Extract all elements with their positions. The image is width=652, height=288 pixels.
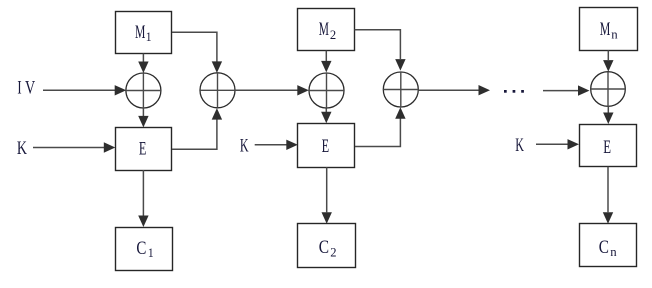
wire E1 up to X2 xyxy=(172,108,222,149)
svg-text:K: K xyxy=(240,136,249,157)
label K2 xyxy=(240,136,249,157)
block E2 xyxy=(298,124,355,168)
wire E2 up to X4 xyxy=(355,107,406,146)
label K3 xyxy=(515,135,524,156)
wire X5 to En xyxy=(603,106,613,124)
wire En to Cn xyxy=(603,167,613,224)
svg-text:M: M xyxy=(600,19,611,40)
svg-text:M: M xyxy=(135,22,145,43)
wire dots to X5 xyxy=(543,85,590,95)
block Mn xyxy=(580,8,638,51)
block M1 xyxy=(116,12,172,54)
block En xyxy=(580,125,637,167)
svg-text:K: K xyxy=(515,135,524,156)
svg-text:2: 2 xyxy=(330,244,336,259)
svg-text:C: C xyxy=(599,237,609,258)
wire M1 right feed to X2 xyxy=(172,32,222,73)
svg-text:C: C xyxy=(319,237,329,258)
wire X4 out right xyxy=(418,85,490,95)
wire X3 to E2 xyxy=(321,108,331,123)
wire M2 to X3 xyxy=(321,51,331,73)
label IV xyxy=(17,78,35,99)
wire E2 to C2 xyxy=(322,167,332,224)
xor X1 xyxy=(126,73,161,108)
xor X3 xyxy=(309,73,344,108)
svg-text:C: C xyxy=(136,238,146,259)
svg-text:E: E xyxy=(322,136,330,157)
block Cn xyxy=(580,224,637,267)
wire X1 to E1 xyxy=(138,108,148,127)
xor X2 xyxy=(200,73,235,108)
svg-text:E: E xyxy=(603,137,611,158)
xor X5 xyxy=(591,72,626,107)
svg-text:V: V xyxy=(25,78,35,99)
svg-text:n: n xyxy=(611,26,618,41)
svg-text:2: 2 xyxy=(330,27,336,42)
svg-text:1: 1 xyxy=(146,29,152,44)
wire M1 to X1 xyxy=(138,54,148,74)
wire K2 to E2 xyxy=(255,140,298,150)
label K1 xyxy=(17,138,27,159)
block E1 xyxy=(116,128,172,171)
wire IV to X1 xyxy=(43,85,126,95)
wire X2 to X3 xyxy=(235,85,309,95)
block C1 xyxy=(116,228,173,271)
ellipsis dots xyxy=(504,90,524,93)
wire E1 to C1 xyxy=(138,170,148,227)
svg-text:n: n xyxy=(610,244,617,259)
svg-text:K: K xyxy=(17,138,27,159)
svg-text:E: E xyxy=(139,138,147,159)
svg-text:I: I xyxy=(17,78,21,99)
wire K3 to En xyxy=(536,139,579,149)
block M2 xyxy=(298,9,355,51)
svg-text:M: M xyxy=(319,19,329,40)
xor X4 xyxy=(383,72,418,107)
svg-text:1: 1 xyxy=(148,245,154,260)
wire K1 to E1 xyxy=(33,142,115,152)
wire M2 right feed to X4 xyxy=(355,30,406,71)
block C2 xyxy=(298,224,356,268)
wire Mn to X5 xyxy=(603,50,613,71)
